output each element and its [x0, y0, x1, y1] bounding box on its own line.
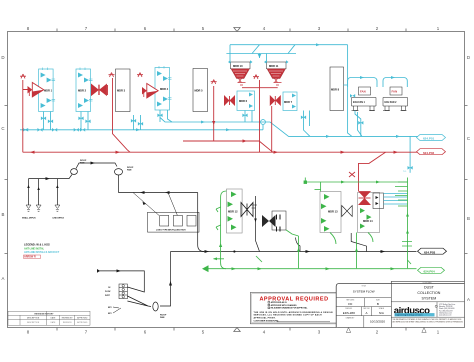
dust filter unit MDR1: [39, 68, 56, 112]
svg-text:EDS-###: EDS-###: [343, 311, 356, 315]
red flow tag: [417, 149, 446, 155]
svg-text:APPROVED: APPROVED: [77, 317, 88, 320]
black rotary valve 13: [342, 206, 352, 217]
svg-text:B: B: [377, 302, 379, 306]
red riser left: [20, 74, 28, 152]
equipment MDR3: [116, 69, 131, 112]
bin vent drop to main: [198, 193, 204, 252]
exhaust fan 2: [383, 87, 408, 111]
legend notes: [24, 243, 60, 259]
hopper unit D: [262, 211, 299, 236]
svg-text:REF. DWG: REF. DWG: [346, 299, 355, 301]
dust filter unit MDR4: [155, 66, 172, 110]
svg-text:T.O.: T.O.: [403, 171, 407, 173]
svg-text:A: A: [467, 297, 470, 302]
svg-text:engineering & design services: engineering & design services: [395, 315, 422, 317]
red riser C: [211, 80, 217, 142]
zone numbers top: [27, 26, 440, 31]
cyan vent header: [226, 43, 352, 136]
black feeder from filters: [250, 196, 367, 252]
svg-text:ARROW R: ARROW R: [24, 256, 36, 259]
svg-text:MDR 7: MDR 7: [284, 100, 293, 104]
fold marks: [346, 328, 426, 333]
cyan unit drops MDR4: [157, 110, 172, 122]
svg-text:TITLE: TITLE: [362, 286, 366, 288]
svg-text:LEGEND: W & L HSS: LEGEND: W & L HSS: [24, 243, 50, 247]
svg-text:624.P02: 624.P02: [423, 151, 435, 155]
dust filter unit MDR2: [76, 68, 93, 112]
black rotary valve 12: [241, 203, 253, 217]
svg-text:Memphis, TN 38118: Memphis, TN 38118: [439, 306, 453, 308]
svg-text:ANT-LINE INSTALLS AIR DUCT: ANT-LINE INSTALLS AIR DUCT: [24, 251, 60, 254]
svg-text:REVISION HISTORY: REVISION HISTORY: [35, 313, 55, 315]
svg-text:SYSTEM FLOW: SYSTEM FLOW: [353, 290, 375, 294]
svg-text:FAN: FAN: [392, 90, 398, 94]
svg-text:DWG NO: DWG NO: [345, 308, 352, 310]
cyan stub lines: [384, 194, 408, 205]
red main bus: [23, 151, 418, 154]
green drops: [297, 233, 373, 269]
svg-text:LINE DRPLN: LINE DRPLN: [53, 218, 65, 220]
cyan fan discharge drop: [355, 111, 363, 137]
svg-text:SMALL DRPLN: SMALL DRPLN: [22, 217, 36, 220]
svg-text:EXH FAN 1: EXH FAN 1: [353, 101, 366, 104]
exhaust fan 1: [352, 87, 377, 111]
green filter unit MDR12: [227, 189, 243, 233]
svg-text:B: B: [467, 216, 470, 221]
svg-text:A: A: [365, 311, 367, 315]
svg-text:DESCRIPTION: DESCRIPTION: [27, 318, 40, 320]
dust filter unit MDR6: [237, 91, 255, 111]
cyan unit drops MDR1: [41, 112, 53, 130]
svg-text:SYSTEM: SYSTEM: [422, 297, 437, 301]
svg-text:MDR 10: MDR 10: [233, 64, 243, 68]
svg-text:MDR 3: MDR 3: [117, 89, 126, 93]
svg-text:C: C: [467, 136, 470, 141]
svg-text:APPROVED AS IS: APPROVED AS IS: [271, 301, 288, 304]
cyan riser to tag: [403, 136, 413, 173]
svg-text:ANT-LINE INSTAL: ANT-LINE INSTAL: [24, 247, 45, 250]
svg-text:SIZE: SIZE: [376, 299, 380, 301]
svg-text:MDR 8: MDR 8: [331, 88, 340, 92]
svg-text:MDR 5: MDR 5: [195, 89, 204, 93]
svg-text:REVISED BY: REVISED BY: [62, 318, 74, 320]
svg-text:COLLECTION: COLLECTION: [417, 291, 440, 295]
valve stem RV2: [107, 85, 109, 95]
svg-text:SHT. NO: SHT. NO: [363, 308, 370, 310]
svg-text:THE JOB IS ON HOLD UNTIL AIRDU: THE JOB IS ON HOLD UNTIL AIRDUSCO ENGINE…: [254, 311, 333, 314]
main black conveying line: [171, 250, 417, 253]
green unit 12 drop: [216, 191, 227, 269]
svg-text:DESCRIPTION: DESCRIPTION: [27, 322, 40, 324]
svg-text:D: D: [467, 55, 470, 60]
dust filter unit MDR7: [283, 92, 297, 111]
svg-text:MDR 1: MDR 1: [44, 89, 53, 93]
green distribution header: [304, 178, 408, 192]
bottom piping run: [97, 252, 172, 319]
green riser right: [395, 178, 412, 269]
drain risers: [22, 179, 64, 220]
svg-text:REVISION: REVISION: [63, 322, 72, 324]
svg-text:DATE: DATE: [51, 317, 56, 320]
svg-text:Phone: (901) 362-6610: Phone: (901) 362-6610: [439, 308, 455, 310]
equipment MDR8: [330, 67, 344, 111]
red bus 2: [183, 139, 273, 152]
svg-text:B: B: [2, 212, 5, 217]
rotary valve RV2: [91, 84, 107, 97]
svg-text:FLOW: FLOW: [105, 291, 111, 293]
red riser B: [109, 73, 131, 153]
svg-text:RE-SUBMIT DRAWINGS FOR APPROVA: RE-SUBMIT DRAWINGS FOR APPROVAL: [271, 307, 309, 310]
equipment MDR5: [193, 69, 208, 112]
svg-text:Fax: (901) 365-1337: Fax: (901) 365-1337: [439, 310, 453, 312]
green flow tag: [418, 267, 445, 273]
svg-text:FAN: FAN: [360, 90, 366, 94]
rotary valve RV4: [137, 73, 158, 98]
green filter unit MDR13: [320, 192, 341, 233]
svg-text:D: D: [1, 55, 4, 60]
roof duct west: [29, 160, 198, 194]
cyan fan bypass drop: [358, 112, 363, 136]
red riser MDR7: [271, 106, 273, 152]
cyan flow tag EXH: [417, 135, 446, 141]
rotary valve RV6: [224, 95, 235, 106]
red airlock valve: [358, 191, 371, 205]
rotary valve RV1: [28, 83, 44, 97]
green collection line: [202, 256, 417, 272]
svg-text:SERVICES, LLC RECEIVES ONE SI: SERVICES, LLC RECEIVES ONE SIGNED COPY O…: [254, 314, 322, 317]
svg-text:MDR 2: MDR 2: [78, 89, 87, 93]
green filter unit MDR14: [358, 193, 380, 233]
svg-text:624.P01: 624.P01: [423, 137, 435, 141]
svg-text:CUSTOMER SIGNATURE:: CUSTOMER SIGNATURE:: [254, 320, 280, 323]
svg-text:N/A: N/A: [379, 311, 384, 315]
filter clean air box: [373, 193, 384, 209]
cyan main bus A: [160, 118, 420, 138]
svg-text:624.P03: 624.P03: [424, 250, 436, 254]
bin vent hopper MDR10: [228, 60, 253, 85]
cyan unit drops MDR3: [131, 115, 143, 130]
svg-text:LONG TYPE BIN FILLING HIGH: LONG TYPE BIN FILLING HIGH: [156, 230, 186, 232]
disclaimer: [393, 318, 464, 324]
svg-text:O2: O2: [108, 287, 110, 289]
svg-text:MDR 12: MDR 12: [228, 210, 238, 214]
svg-text:DUST: DUST: [424, 286, 435, 290]
svg-text:EXH FAN 2: EXH FAN 2: [385, 101, 398, 104]
svg-text:MDR 13: MDR 13: [328, 210, 338, 214]
cyan unit drops MDR6 MDR7: [242, 111, 310, 137]
cyan bus B: [20, 125, 263, 132]
svg-text:MDR 4: MDR 4: [160, 87, 169, 91]
svg-text:APPROVAL PRINT.: APPROVAL PRINT.: [254, 316, 276, 319]
svg-text:MDR 11: MDR 11: [269, 64, 279, 68]
svg-text:MDR 14: MDR 14: [363, 219, 373, 223]
bin filling station: [133, 193, 199, 233]
black flow tag: [418, 248, 447, 254]
bin vent hopper MDR11: [264, 60, 289, 85]
cyan unit drops MDR2: [78, 112, 90, 130]
zone letters: [1, 55, 470, 302]
red branch to airlock valve: [349, 152, 386, 191]
svg-text:C: C: [1, 126, 4, 131]
diverter manifold: [105, 284, 127, 315]
rotary valve RV7: [270, 95, 281, 106]
zone numbers bottom: [27, 330, 440, 335]
airdusco logo: [394, 305, 438, 317]
svg-text:A: A: [2, 276, 5, 281]
svg-text:10/13/2020: 10/13/2020: [370, 320, 385, 324]
svg-text:MDR 6: MDR 6: [239, 99, 248, 103]
svg-text:CUSTOMER: CUSTOMER: [422, 282, 432, 284]
svg-text:624.P04: 624.P04: [424, 270, 436, 274]
svg-text:APPROVED WITH CHANGES: APPROVED WITH CHANGES: [271, 304, 298, 307]
logo address: [439, 303, 455, 317]
svg-text:DATE: DATE: [51, 321, 56, 324]
red hopper discharge line: [242, 75, 278, 153]
svg-text:APPROVED: APPROVED: [77, 321, 88, 324]
cyan fan suction loops: [348, 76, 408, 98]
